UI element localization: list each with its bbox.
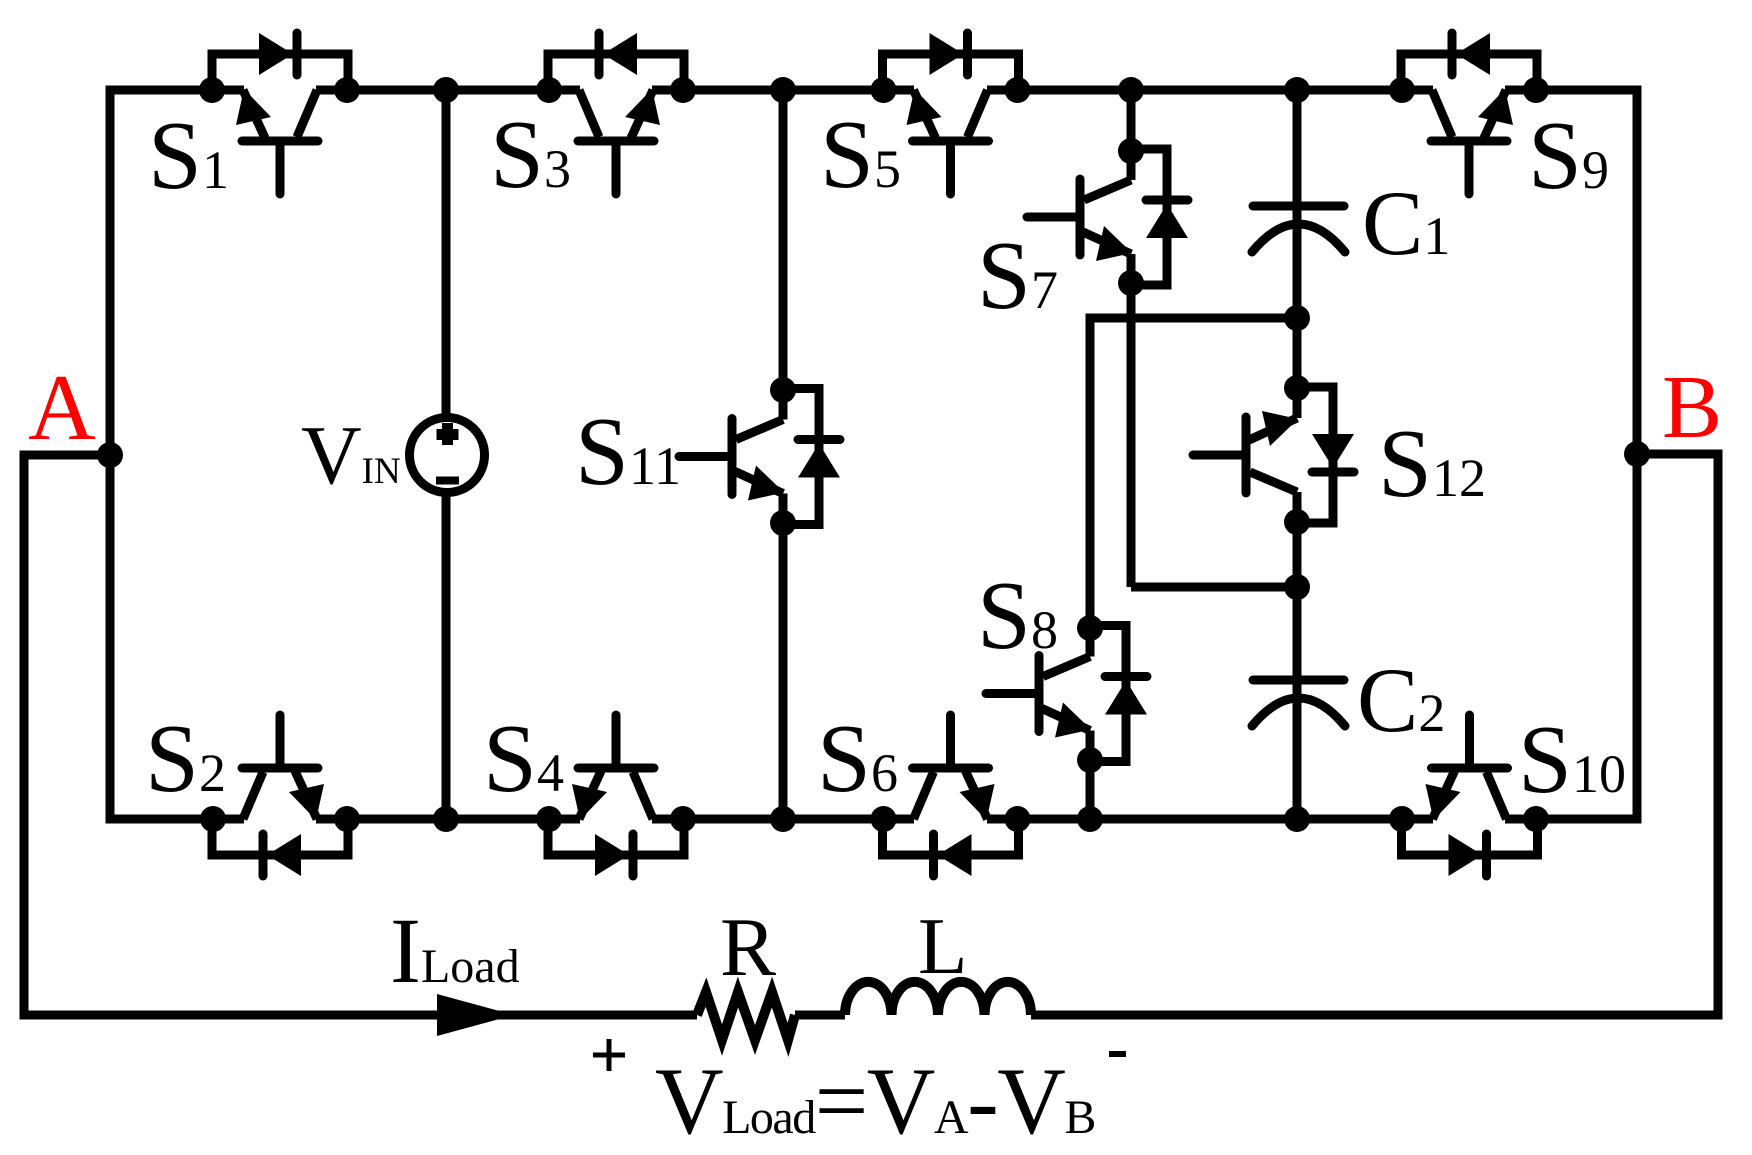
node dot S7 top <box>1118 138 1144 164</box>
wire node A to load loop left side <box>24 455 697 1015</box>
arrow ILoad direction <box>437 994 514 1036</box>
wire S8 bottom to rail <box>1086 760 1095 819</box>
svg-text:VIN: VIN <box>301 409 401 502</box>
svg-text:S7: S7 <box>977 222 1058 329</box>
capacitor C1 curved plate <box>1252 224 1345 252</box>
source VIN minus sign <box>436 477 459 485</box>
source VIN plus sign <box>437 423 459 445</box>
wire C2 branch top <box>1293 587 1302 680</box>
svg-text:VLoad=VA-VB: VLoad=VA-VB <box>655 1048 1095 1154</box>
wire C2 branch bottom <box>1293 684 1302 819</box>
svg-text:S11: S11 <box>575 398 681 505</box>
node dot bottom rail S2 right <box>334 806 360 832</box>
transistor S5 <box>883 33 1019 194</box>
node dot top rail S11 junction <box>770 77 796 103</box>
svg-text:R: R <box>720 901 776 994</box>
resistor R zigzag <box>697 992 795 1040</box>
node dot S11 bottom <box>770 510 796 536</box>
node dot top rail S5 left <box>871 77 897 103</box>
wire S12 bottom <box>1293 522 1302 587</box>
svg-text:B: B <box>1662 358 1722 457</box>
transistor S12 <box>1193 387 1354 523</box>
wire S7 branch top <box>1127 90 1136 151</box>
node dot S7 bottom <box>1118 270 1144 296</box>
inductor L bumps <box>845 982 1031 1015</box>
transistor S4 <box>548 715 684 876</box>
node dot S12 top <box>1284 375 1310 401</box>
transistor S2 <box>212 715 348 876</box>
svg-text:S9: S9 <box>1528 102 1609 209</box>
wire top rail S5-S9 segment <box>987 86 1433 95</box>
node dot bottom rail S4 left <box>536 806 562 832</box>
svg-text:C2: C2 <box>1357 649 1445 751</box>
wire S11 branch top <box>779 90 788 390</box>
node dot bottom rail S8 junction <box>1077 806 1103 832</box>
capacitor C2 curved plate <box>1252 698 1345 726</box>
wire S11 branch bottom <box>779 523 788 819</box>
svg-text:S4: S4 <box>483 705 564 812</box>
wire S7 bottom vertical <box>1127 283 1136 587</box>
wire bottom rail S2-S4 segment <box>316 815 580 824</box>
node dot top rail S3 right <box>670 77 696 103</box>
wire bottom rail S6-S10 segment <box>987 815 1433 824</box>
svg-text:S12: S12 <box>1378 410 1486 517</box>
node dot bottom rail S6 left <box>871 806 897 832</box>
wire S12 top <box>1293 318 1302 388</box>
node dot C2 top junction <box>1284 574 1310 600</box>
label minus polarity <box>1109 1051 1126 1057</box>
node dot C1 mid junction <box>1284 305 1310 331</box>
wire top rail S3-S5 segment <box>652 86 914 95</box>
wire load loop right side to node B <box>1031 454 1718 1015</box>
svg-text:S6: S6 <box>817 705 898 812</box>
node dot top rail Vin junction <box>433 77 459 103</box>
capacitor C1 top plate <box>1253 202 1344 211</box>
svg-text:S8: S8 <box>977 562 1058 669</box>
transistor S1 <box>212 33 348 194</box>
svg-text:L: L <box>918 901 967 991</box>
wire bottom rail S4-S6 segment <box>652 815 914 824</box>
svg-text:S5: S5 <box>820 101 901 208</box>
svg-text:S2: S2 <box>145 705 226 812</box>
svg-text:S3: S3 <box>490 101 571 208</box>
node dot bottom rail Vin junction <box>433 806 459 832</box>
svg-text:S1: S1 <box>148 102 229 209</box>
node dot top rail C1 junction <box>1284 77 1310 103</box>
node dot top rail S1 left <box>199 77 225 103</box>
wire C1 branch top <box>1293 90 1302 206</box>
node dot bottom rail C2 junction <box>1284 806 1310 832</box>
node dot bottom rail S2 left <box>200 806 226 832</box>
node dot top rail S9 right <box>1523 77 1549 103</box>
node dot bottom rail S10 right <box>1523 806 1549 832</box>
node dot S11 top <box>770 377 796 403</box>
svg-text:A: A <box>28 356 96 460</box>
transistor S7 <box>1027 149 1188 285</box>
svg-text:C1: C1 <box>1362 172 1450 274</box>
node B dot <box>1624 441 1650 467</box>
wire Vin branch bottom <box>442 494 451 819</box>
node dot top rail S7 junction <box>1118 77 1144 103</box>
wire C1 branch bottom <box>1293 210 1302 318</box>
node dot top rail S3 left <box>536 77 562 103</box>
wire S7 bottom to C branch <box>1131 583 1297 592</box>
node dot bottom rail S4 right <box>670 806 696 832</box>
transistor S10 <box>1402 715 1538 876</box>
node dot bottom rail S11 junction <box>770 806 796 832</box>
transistor S6 <box>883 715 1019 876</box>
wire load loop between R and L <box>795 1011 845 1020</box>
capacitor C2 top plate <box>1253 676 1344 685</box>
node dot bottom rail S6 right <box>1005 806 1031 832</box>
node dot bottom rail S10 left <box>1389 806 1415 832</box>
label plus polarity <box>593 1039 625 1071</box>
node A dot <box>97 442 123 468</box>
wire Vin branch top <box>442 90 451 416</box>
node dot S12 bottom <box>1284 509 1310 535</box>
node dot S8 top <box>1077 615 1103 641</box>
node dot top rail S9 left <box>1389 77 1415 103</box>
wire top rail S1-S3 segment <box>316 86 580 95</box>
wire top rail right + right vertical + bottom rail right <box>1505 90 1637 819</box>
node dot top rail S5 right <box>1005 77 1031 103</box>
svg-text:ILoad: ILoad <box>390 900 520 1003</box>
transistor S3 <box>548 33 684 194</box>
transistor S8 <box>986 626 1147 762</box>
source VIN circle <box>410 418 485 493</box>
wire top rail left + left vertical + bottom rail left <box>110 90 244 819</box>
wire C1 mid to S8 top horizontal <box>1090 318 1297 628</box>
node dot S8 bottom <box>1077 747 1103 773</box>
svg-text:S10: S10 <box>1518 706 1626 813</box>
node dot top rail S1 right <box>334 77 360 103</box>
transistor S11 <box>679 389 840 525</box>
transistor S9 <box>1401 33 1537 194</box>
